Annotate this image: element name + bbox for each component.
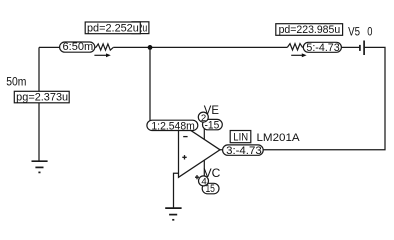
wire R1 to R2 [113, 46, 287, 48]
op-amp VC supply pin [203, 160, 205, 178]
wire battery to right corner down to output [263, 47, 385, 149]
node label 1:2.548m stadium [147, 120, 198, 132]
op-amp VE supply pin [203, 119, 205, 139]
node -15 stadium (VE voltage) [203, 119, 223, 131]
label pd=223.985u box [276, 24, 343, 36]
wire top horizontal (source to battery) [39, 46, 96, 48]
svg-text:pd=223.985u: pd=223.985u [279, 24, 341, 36]
label pd=2.252u box [85, 22, 140, 35]
resistor R2 zigzag [287, 44, 302, 50]
current arrow R2 [291, 53, 306, 57]
svg-text:6:50m: 6:50m [63, 41, 94, 53]
svg-text:4: 4 [201, 177, 207, 188]
node label 3:-4.73 stadium [223, 145, 264, 157]
label pg=2.373u box [14, 91, 69, 103]
svg-text:LM201A: LM201A [257, 132, 301, 144]
wire op-amp output stub [220, 149, 263, 151]
ground left [32, 161, 48, 172]
junction node dot [148, 45, 153, 50]
ground op-amp plus input [165, 208, 181, 220]
battery V5 long plate [363, 41, 365, 56]
resistor R1 zigzag [96, 44, 113, 50]
svg-text:3:-4.73: 3:-4.73 [226, 145, 262, 157]
op-amp U1 triangle [179, 122, 221, 177]
label LIN box [230, 131, 251, 144]
svg-text:2: 2 [201, 113, 206, 124]
VC polarity plus mark [195, 176, 199, 178]
node circle 2 (VE net) [198, 112, 208, 124]
op-amp minus input mark [183, 136, 187, 138]
wire plus input to ground [174, 173, 179, 208]
op-amp plus input mark [182, 156, 186, 158]
battery V5 short plate [359, 45, 361, 51]
node label 5:-4.73 stadium [303, 42, 341, 54]
svg-text:LIN: LIN [233, 132, 248, 144]
node label 6:50m stadium [60, 41, 95, 53]
hidden label box (partial, behind pd box) [132, 22, 149, 35]
svg-text:V5: V5 [348, 24, 360, 38]
svg-text:pg=2.373u: pg=2.373u [16, 92, 68, 104]
current arrow R1 [94, 53, 110, 57]
wire R2 to battery [303, 46, 360, 48]
svg-text:pd=2.252u: pd=2.252u [87, 23, 139, 35]
wire junction vertical to minus input [149, 47, 151, 122]
svg-text:5:-4.73: 5:-4.73 [306, 42, 339, 54]
node circle 4 (VC net) [199, 176, 209, 188]
svg-text:50m: 50m [6, 77, 26, 89]
svg-text:0: 0 [367, 24, 372, 38]
svg-text:1:2.548m: 1:2.548m [151, 121, 195, 133]
wire left vertical [38, 47, 40, 161]
node 15 stadium (VC voltage) [202, 183, 219, 195]
